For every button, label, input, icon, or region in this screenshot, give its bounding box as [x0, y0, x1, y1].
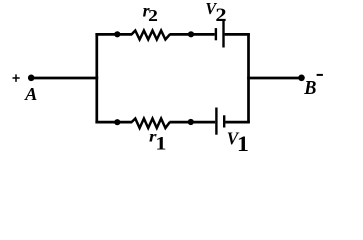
svg-text:1: 1 [155, 134, 166, 154]
battery V2 long plate (right, positive) [222, 20, 224, 48]
wire from right vertical to node B [247, 77, 301, 80]
left vertical wire [95, 33, 98, 123]
battery V1 long plate (left, positive) [215, 108, 217, 135]
junction dot right of r1 [188, 119, 194, 125]
wire: top-left corner to resistor r2 [95, 33, 132, 36]
junction dot left of r2 [114, 31, 120, 37]
wire from r2 to battery V2 [169, 33, 214, 36]
battery V1 short plate (right, negative) [223, 115, 225, 127]
svg-text:2: 2 [215, 4, 226, 25]
plus sign at node A [13, 74, 20, 82]
svg-text:1: 1 [237, 132, 249, 157]
node B terminal dot [298, 75, 305, 82]
svg-text:B: B [303, 77, 316, 99]
resistor r1 [132, 119, 170, 129]
junction dot right of r2 [188, 31, 194, 37]
battery V2 short plate (left, negative) [215, 28, 217, 40]
wire: bottom-left corner to resistor r1 [95, 121, 132, 124]
svg-text:A: A [24, 84, 37, 104]
right vertical wire [247, 33, 250, 123]
svg-text:2: 2 [148, 6, 158, 25]
wire from V2 to top-right corner [225, 33, 250, 36]
wire from node A to left vertical [31, 77, 98, 80]
node A terminal dot [28, 75, 35, 82]
wire from V1 to bottom-right corner [225, 121, 250, 124]
wire from r1 to battery V1 [169, 121, 215, 124]
resistor r2 [132, 31, 170, 40]
minus sign at node B [317, 74, 323, 76]
junction dot left of r1 [114, 119, 120, 125]
